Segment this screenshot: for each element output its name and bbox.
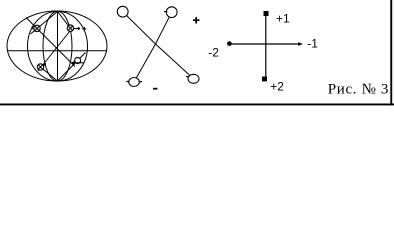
svg-text:+1: +1	[276, 12, 290, 26]
svg-text:Рис. № 3: Рис. № 3	[328, 82, 389, 98]
svg-text:+2: +2	[270, 80, 284, 94]
svg-text:-1: -1	[307, 37, 318, 51]
svg-text:-2: -2	[208, 46, 219, 60]
